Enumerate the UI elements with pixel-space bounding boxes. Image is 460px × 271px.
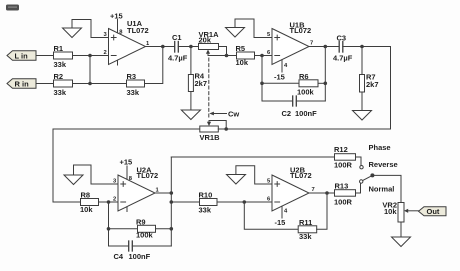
wire U2A out <box>155 192 171 194</box>
op-amp U2A <box>113 158 160 212</box>
potentiometer VR1A 20k <box>199 30 227 56</box>
svg-text:4.7µF: 4.7µF <box>333 54 353 63</box>
svg-text:R12: R12 <box>334 145 348 154</box>
svg-text:Out: Out <box>427 207 440 216</box>
svg-text:-15: -15 <box>275 218 286 227</box>
resistor R11 33k <box>244 193 327 241</box>
svg-text:2k7: 2k7 <box>366 80 379 89</box>
wire top out down to bus <box>226 47 390 130</box>
wire U2B out to R13 <box>309 192 335 194</box>
svg-text:7: 7 <box>310 41 313 47</box>
svg-text:20k: 20k <box>199 35 212 44</box>
capacitor C4 100nF <box>109 241 172 261</box>
svg-text:TL072: TL072 <box>127 26 149 35</box>
capacitor C2 100nF <box>262 96 325 118</box>
resistor R10 33k <box>171 191 272 215</box>
node U2A pin2 <box>107 200 111 204</box>
node U2B out <box>325 191 329 195</box>
wire R2 to R3 <box>73 83 127 85</box>
svg-text:10k: 10k <box>236 58 249 67</box>
svg-text:R11: R11 <box>299 218 312 227</box>
svg-text:100nF: 100nF <box>129 252 151 261</box>
node VR1B wiper junction <box>224 127 228 131</box>
op-amp U2B <box>267 166 315 228</box>
feedback vertical U1B left <box>261 56 263 102</box>
svg-text:Cw: Cw <box>228 110 239 119</box>
resistor R8 10k <box>80 191 118 215</box>
node U1B out <box>324 45 328 49</box>
resistor R5 10k <box>227 44 273 67</box>
svg-text:100R: 100R <box>334 198 353 207</box>
svg-text:33k: 33k <box>54 88 67 97</box>
resistor R7 2k7 <box>360 47 379 111</box>
svg-text:R8: R8 <box>81 191 91 200</box>
svg-text:+15: +15 <box>110 12 123 21</box>
svg-text:TL072: TL072 <box>137 171 159 180</box>
svg-text:Phase: Phase <box>369 143 391 152</box>
capacitor C1 4.7uF <box>168 33 188 63</box>
resistor R9 100k <box>109 218 172 240</box>
node R6 left <box>260 82 264 86</box>
svg-text:Normal: Normal <box>369 185 395 194</box>
wire U1A out to C1 <box>146 46 175 48</box>
svg-text:TL072: TL072 <box>290 171 312 180</box>
svg-text:100k: 100k <box>136 231 154 240</box>
ground under R4 <box>181 110 200 120</box>
wire bus left to R8 <box>53 129 200 202</box>
capacitor C3 4.7uF <box>333 34 353 63</box>
svg-text:33k: 33k <box>299 232 312 241</box>
svg-text:R5: R5 <box>236 44 246 53</box>
node R9 right <box>170 227 174 231</box>
input tag L in <box>7 51 36 61</box>
wire R1 to U1A pin2 <box>73 55 109 57</box>
input tag R in <box>7 79 36 89</box>
ground near U1A <box>63 20 109 38</box>
node switch common <box>370 173 374 177</box>
svg-text:10k: 10k <box>384 207 397 216</box>
wire summing vertical <box>89 56 91 84</box>
wire C3 to corner <box>343 46 391 48</box>
svg-text:R13: R13 <box>335 182 349 191</box>
svg-text:4: 4 <box>284 63 288 69</box>
svg-text:R in: R in <box>15 79 30 88</box>
resistor R1 33k <box>54 44 73 69</box>
node U1B pin6 <box>260 54 264 58</box>
node out/R12 <box>170 191 174 195</box>
svg-text:4.7µF: 4.7µF <box>168 54 188 63</box>
node U1A out <box>161 45 165 49</box>
svg-text:C1: C1 <box>172 33 182 42</box>
switch contact Normal <box>360 180 363 183</box>
svg-text:10k: 10k <box>80 205 93 214</box>
resistor R12 100R <box>171 145 361 170</box>
vertical out bus U2A <box>170 157 172 246</box>
node R6 right <box>324 82 328 86</box>
node R7 tap <box>360 45 364 49</box>
node R4 tap <box>189 45 193 49</box>
ground near U1B <box>226 19 273 38</box>
svg-text:C4: C4 <box>114 252 124 261</box>
ground near U2A <box>64 165 118 185</box>
svg-text:+15: +15 <box>120 158 133 167</box>
wire VR2 to ground <box>400 222 402 237</box>
svg-text:33k: 33k <box>199 206 212 215</box>
svg-text:2: 2 <box>113 197 116 203</box>
svg-text:TL072: TL072 <box>290 26 312 35</box>
feedback vertical U2A left <box>108 202 110 246</box>
svg-text:R1: R1 <box>54 44 64 53</box>
resistor R4 2k7 <box>188 47 207 111</box>
op-amp U1A <box>104 12 151 66</box>
node sum L <box>88 54 92 58</box>
svg-text:L in: L in <box>15 51 29 60</box>
svg-text:-15: -15 <box>274 73 285 82</box>
svg-text:C3: C3 <box>337 34 347 43</box>
svg-text:100nF: 100nF <box>295 109 317 118</box>
logo badge <box>6 5 19 11</box>
node VR1A wiper junction <box>225 54 229 58</box>
feedback vertical U1B right <box>324 47 326 102</box>
svg-text:100k: 100k <box>297 87 315 96</box>
svg-text:C2: C2 <box>282 109 292 118</box>
resistor R6 100k <box>262 72 325 97</box>
svg-text:R9: R9 <box>136 218 146 227</box>
svg-text:R10: R10 <box>199 191 213 200</box>
node R10 tap <box>170 200 174 204</box>
Cw direction arrow <box>209 110 239 119</box>
ground near U2B <box>227 166 273 184</box>
wire R3 feedback up to output <box>145 47 163 84</box>
resistor R13 100R <box>334 182 361 207</box>
svg-text:100R: 100R <box>334 161 353 170</box>
op-amp U1B <box>267 21 313 82</box>
wire common to VR2 <box>372 175 401 202</box>
svg-text:8: 8 <box>129 176 133 182</box>
potentiometer VR2 10k <box>382 201 418 223</box>
svg-text:2: 2 <box>104 50 107 56</box>
wire C1 to VR1A <box>178 46 198 48</box>
output tag Out <box>419 207 447 216</box>
resistor R2 33k <box>54 72 73 97</box>
switch blade <box>363 175 373 180</box>
wire U1B out to C3 <box>309 46 339 48</box>
potentiometer VR1B <box>200 121 227 143</box>
resistor R3 33k <box>127 72 145 97</box>
ground under VR2 <box>392 237 411 247</box>
switch labels <box>369 143 398 194</box>
node R11 tap <box>243 200 247 204</box>
svg-text:33k: 33k <box>54 60 67 69</box>
svg-text:8: 8 <box>119 30 123 36</box>
ground under R7 <box>353 111 372 121</box>
node sum R <box>88 82 92 86</box>
svg-text:R6: R6 <box>299 72 309 81</box>
svg-text:2k7: 2k7 <box>195 79 208 88</box>
svg-text:R3: R3 <box>127 72 137 81</box>
svg-text:4: 4 <box>284 209 288 215</box>
svg-text:7: 7 <box>312 187 315 193</box>
wire R in to R2 <box>36 83 54 85</box>
svg-text:R2: R2 <box>54 72 64 81</box>
svg-text:33k: 33k <box>127 88 140 97</box>
wire L in to R1 <box>36 55 54 57</box>
svg-text:Reverse: Reverse <box>369 160 398 169</box>
svg-text:VR1B: VR1B <box>200 133 221 142</box>
node R9 left <box>107 227 111 231</box>
switch contact Reverse <box>360 166 363 169</box>
gang link dashed VR1A-VR1B <box>208 58 210 120</box>
